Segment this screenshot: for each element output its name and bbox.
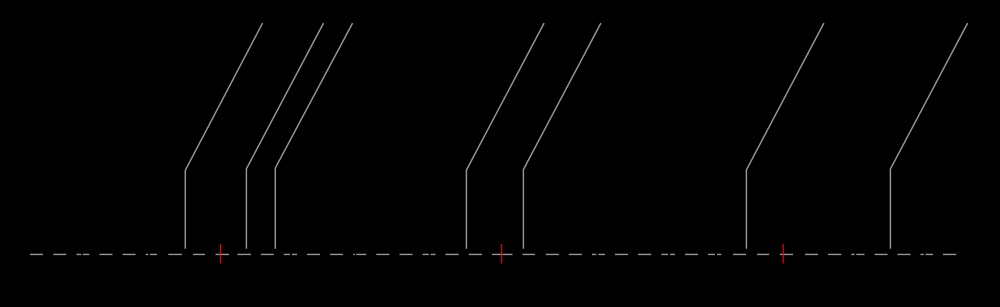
switch S7 — [890, 23, 967, 249]
red pin marker 1 — [219, 244, 221, 264]
switch S3 — [275, 23, 352, 249]
red pin marker 3 — [782, 244, 784, 264]
red pin marker 2 — [501, 244, 503, 264]
switch S5 — [523, 23, 601, 249]
dashed bus wire — [30, 253, 956, 255]
switch S6 — [746, 23, 824, 249]
switch S1 — [185, 23, 262, 249]
switch S4 — [466, 23, 544, 249]
switch S2 — [246, 23, 323, 249]
